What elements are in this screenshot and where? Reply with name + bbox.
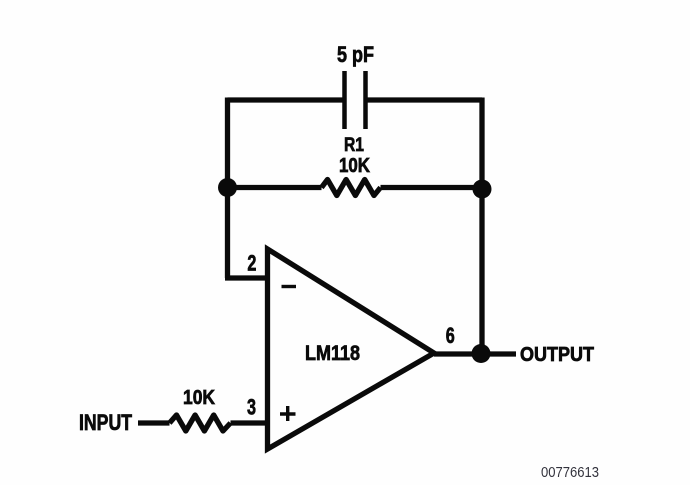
svg-text:INPUT: INPUT: [79, 410, 132, 435]
svg-text:R1: R1: [344, 134, 364, 156]
svg-text:OUTPUT: OUTPUT: [520, 343, 594, 366]
svg-text:10K: 10K: [339, 154, 370, 177]
svg-text:5 pF: 5 pF: [337, 42, 374, 67]
svg-text:6: 6: [446, 323, 455, 348]
svg-text:2: 2: [247, 251, 256, 276]
svg-text:3: 3: [247, 395, 256, 420]
svg-text:10K: 10K: [183, 386, 215, 409]
svg-text:LM118: LM118: [305, 341, 360, 365]
svg-text:00776613: 00776613: [541, 465, 599, 481]
